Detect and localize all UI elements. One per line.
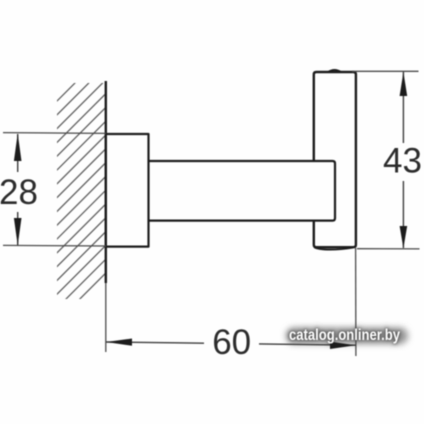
front plate <box>314 72 356 247</box>
dim 43 arrow down <box>400 226 408 248</box>
dim 60 line <box>106 342 204 343</box>
dim 28 arrow up <box>14 133 22 161</box>
arm <box>149 161 336 221</box>
dim 43 arrow up <box>400 72 408 96</box>
dim 43 extension bottom <box>357 248 420 250</box>
svg-text:60: 60 <box>212 323 251 362</box>
dim 60 extension left (wall edge continued) <box>105 283 107 352</box>
svg-text:28: 28 <box>0 173 38 212</box>
dim 43 line <box>402 72 404 248</box>
svg-text:43: 43 <box>383 142 422 181</box>
dim 43 extension top <box>352 70 419 72</box>
dim 60 extension right (plate edge continued) <box>355 248 357 356</box>
flange (wall plate) <box>106 134 149 247</box>
wall hatching <box>20 0 393 307</box>
plate bottom curve <box>314 247 353 249</box>
plate top bump <box>328 70 341 72</box>
dim 60 arrow left <box>106 339 132 346</box>
dim 28 line <box>17 134 19 245</box>
svg-text:catalog.onliner.by: catalog.onliner.by <box>289 327 400 344</box>
dim 28 arrow down <box>14 218 22 245</box>
dim 28 extension top <box>3 132 106 135</box>
watermark text (white) <box>289 327 400 344</box>
dim 60 arrow right <box>330 342 356 349</box>
watermark catalog.onliner.by <box>286 327 408 344</box>
dim 28 extension bottom <box>3 244 106 247</box>
wall edge <box>105 81 107 283</box>
dim 60 line right segment <box>259 344 356 345</box>
